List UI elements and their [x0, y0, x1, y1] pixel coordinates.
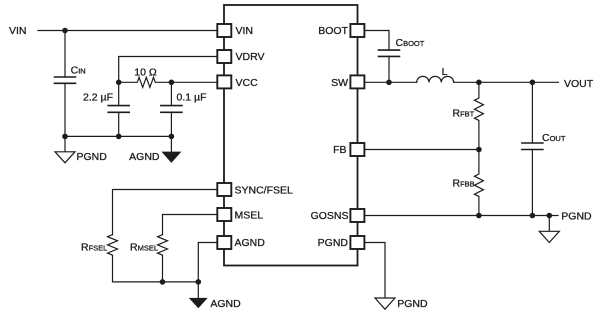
junction FB/RFBT/RFBB: [476, 147, 482, 153]
pin VCC box: [217, 75, 231, 88]
wire SYNC/FSEL to RFSEL: [113, 190, 218, 235]
capacitor 2.2uF: [108, 106, 129, 113]
wire CIN bottom: [64, 83, 66, 136]
svg-text:PGND: PGND: [77, 151, 108, 163]
svg-text:CIN: CIN: [71, 64, 86, 76]
wire BOOT to CBOOT: [364, 31, 389, 51]
pin VDRV box: [217, 50, 231, 63]
svg-text:RMSEL: RMSEL: [130, 242, 158, 254]
junction RMSEL/ground: [160, 279, 166, 285]
junction L/RFBT: [476, 80, 482, 86]
pin SW box: [350, 75, 364, 88]
svg-text:SYNC/FSEL: SYNC/FSEL: [235, 184, 294, 196]
ground AGND filled triangle upper: [161, 152, 181, 163]
junction L/COUT: [530, 80, 536, 86]
wire to VCC pin: [171, 81, 217, 83]
pin PGND box: [350, 236, 364, 249]
junction 0.1uF/ground: [169, 134, 175, 140]
junction PGND/GOSNS: [547, 213, 553, 219]
junction CIN/ground: [62, 134, 68, 140]
wire VDRV to node: [119, 57, 218, 83]
svg-text:FB: FB: [333, 144, 346, 156]
svg-text:VIN: VIN: [236, 25, 254, 37]
svg-text:AGND: AGND: [129, 151, 160, 163]
svg-text:RFBT: RFBT: [453, 108, 475, 120]
svg-text:SW: SW: [331, 77, 348, 89]
wire 0.1uF top: [170, 82, 172, 105]
wire VIN to VIN pin: [38, 30, 217, 32]
pin AGND box: [217, 236, 231, 249]
pin FB box: [350, 143, 364, 156]
wire ground bus left: [65, 135, 171, 137]
wire COUT top: [531, 82, 533, 143]
svg-text:PGND: PGND: [318, 237, 349, 249]
wire inductor to VOUT: [454, 81, 559, 83]
resistor RFBB: [474, 150, 483, 216]
pin MSEL box: [217, 208, 231, 221]
ground PGND open triangle bottom: [375, 298, 395, 309]
svg-text:BOOT: BOOT: [318, 25, 348, 37]
svg-text:RFBB: RFBB: [453, 178, 475, 190]
svg-text:PGND: PGND: [397, 298, 428, 310]
junction AGND wire/ground: [196, 279, 202, 285]
svg-text:AGND: AGND: [235, 237, 266, 249]
junction COUT/GOSNS: [530, 213, 536, 219]
pin SYNC/FSEL box: [217, 183, 231, 196]
wire PGND drop: [64, 136, 66, 151]
junction VIN/CIN: [62, 28, 68, 34]
resistor RFSEL: [108, 235, 118, 282]
svg-text:COUT: COUT: [542, 132, 566, 144]
wire CBOOT to SW line: [388, 56, 390, 82]
wire COUT bottom: [531, 150, 533, 216]
pin VIN box: [217, 24, 231, 37]
svg-text:L: L: [442, 66, 448, 78]
svg-text:GOSNS: GOSNS: [311, 210, 349, 222]
capacitor COUT: [522, 143, 543, 150]
svg-text:AGND: AGND: [210, 298, 241, 310]
junction R10/0.1uF/VCC: [169, 80, 175, 86]
inductor L: [417, 76, 454, 82]
capacitor CBOOT: [379, 50, 400, 56]
wire 0.1uF bottom: [170, 112, 172, 136]
wire MSEL to RMSEL: [163, 215, 218, 235]
resistor 10 ohm: [119, 77, 172, 87]
svg-text:VCC: VCC: [236, 77, 259, 89]
wire PGND right drop: [548, 216, 550, 232]
ground PGND open triangle left: [55, 152, 75, 163]
svg-text:RFSEL: RFSEL: [81, 242, 107, 254]
resistor RMSEL: [158, 235, 168, 282]
wire GOSNS bus: [364, 215, 558, 217]
svg-text:0.1 µF: 0.1 µF: [177, 92, 207, 104]
wire FB to divider: [364, 149, 479, 151]
ground PGND open triangle right: [539, 231, 559, 242]
wire CIN top: [64, 31, 66, 78]
wire 2.2uF bottom: [118, 112, 120, 136]
svg-text:PGND: PGND: [561, 211, 592, 223]
capacitor 0.1uF: [161, 106, 182, 113]
ground AGND filled triangle bottom: [189, 298, 208, 308]
pin GOSNS box: [350, 209, 364, 222]
wire 2.2uF top: [118, 82, 120, 105]
svg-text:MSEL: MSEL: [235, 209, 264, 221]
junction 2.2uF/ground: [116, 134, 122, 140]
pin BOOT box: [350, 24, 364, 37]
wire SW to inductor: [364, 81, 416, 83]
resistor RFBT: [474, 82, 483, 149]
wire PGND pin to ground: [364, 243, 385, 299]
svg-text:VOUT: VOUT: [564, 78, 594, 90]
junction VDRV/2.2uF/R10: [116, 80, 122, 86]
svg-text:CBOOT: CBOOT: [396, 37, 425, 49]
wire AGND drop: [170, 136, 172, 151]
junction RFBB/GOSNS: [476, 213, 482, 219]
svg-text:VIN: VIN: [9, 25, 27, 37]
wire AGND pin to ground: [198, 243, 217, 298]
svg-text:2.2 µF: 2.2 µF: [83, 92, 113, 104]
junction CBOOT/SW: [386, 80, 392, 86]
svg-text:10 Ω: 10 Ω: [134, 66, 157, 78]
capacitor CIN: [55, 77, 76, 83]
op-amp U1 IC body: [224, 5, 358, 266]
svg-text:VDRV: VDRV: [236, 51, 265, 63]
wire ground bus bottom left: [113, 281, 199, 283]
